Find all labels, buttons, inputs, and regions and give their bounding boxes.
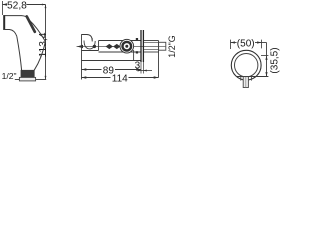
centerline: [77, 46, 160, 48]
arrow 113,4 bottom: [45, 76, 47, 80]
bottom chord / extension (35,5) bottom: [236, 76, 268, 78]
dimension line (35,5): [266, 43, 268, 77]
arrow 89 right: [136, 68, 141, 70]
pipe end / extension 114: [158, 41, 160, 78]
hook inner vertical: [91, 38, 93, 42]
svg-text:(50): (50): [237, 38, 255, 49]
flange dot top: [136, 38, 138, 40]
extension line (50) right: [261, 40, 263, 49]
extension line bottom of 113,4: [36, 79, 47, 81]
arrow 114 right: [154, 76, 159, 78]
hook stem inner line: [245, 77, 247, 87]
dimension line 113,4: [45, 5, 47, 80]
arrow 3 right: [143, 70, 146, 72]
hook top edge: [82, 35, 93, 41]
arrow 3 left: [138, 70, 141, 72]
arrow (50) right: [257, 41, 261, 43]
body bottom edge: [99, 51, 141, 53]
extension line (35,5) top: [261, 55, 268, 57]
flange dot bottom: [136, 51, 138, 53]
svg-text:1/2"G: 1/2"G: [167, 35, 177, 57]
wall plate back line: [142, 30, 144, 62]
dimension line 89: [82, 69, 102, 71]
hook collar left: [240, 77, 242, 81]
diamond marker 1: [106, 44, 113, 49]
spray head top edge: [4, 16, 29, 20]
arrow 89 left: [82, 68, 87, 70]
nipple centerline: [159, 46, 165, 48]
inner circle: [235, 53, 258, 76]
pipe thread top: [144, 42, 159, 44]
valve cap outer circle: [120, 39, 134, 53]
svg-text:52,8: 52,8: [7, 1, 27, 12]
leader line 1/2": [15, 79, 20, 81]
arrow 113,4 top: [45, 5, 47, 9]
hook cup: [84, 41, 95, 49]
svg-text:3: 3: [135, 61, 141, 72]
hook collar right: [250, 77, 252, 81]
arrow (35,5) top: [265, 56, 267, 60]
arrow (50) left: [231, 41, 235, 43]
dimension line 114: [82, 77, 111, 79]
outer circle: [231, 50, 261, 80]
arrow 114 left: [82, 76, 87, 78]
svg-text:113,4: 113,4: [38, 32, 49, 57]
head bottom edge: [4, 30, 17, 37]
pipe bottom: [144, 51, 159, 53]
centerline left arrow: [77, 45, 83, 48]
collar edge under cap: [133, 50, 135, 61]
arrow (35,5) bottom: [265, 72, 267, 76]
connector nut: [19, 77, 35, 81]
arrow 52,8 left: [2, 3, 7, 5]
hose connector dark band: [21, 70, 35, 77]
hook right edge: [98, 41, 100, 51]
head right slant to handle knee: [28, 19, 45, 41]
svg-text:(35,5): (35,5): [270, 47, 281, 73]
spray head face (thick): [3, 15, 5, 30]
svg-text:114: 114: [112, 74, 128, 85]
dimension line 52,8: [3, 4, 7, 6]
hook cup pin: [93, 45, 96, 48]
trigger lever: [27, 16, 35, 31]
extension line (50) left: [230, 40, 232, 49]
wall plate front line: [140, 30, 142, 62]
extension lines 3: [140, 62, 142, 74]
valve cap ring: [123, 42, 132, 51]
valve cap center dot: [125, 45, 128, 48]
pipe thread bottom: [144, 49, 159, 51]
dimension line (50): [231, 42, 237, 44]
hook left face / extension: [81, 34, 83, 79]
arrow 52,8 right: [42, 4, 46, 6]
hook stem: [243, 77, 248, 88]
handle left edge: [17, 36, 22, 70]
handle right edge: [34, 42, 45, 71]
pipe top: [144, 40, 159, 42]
hook bottom edge: [82, 50, 99, 52]
extension line left of 52,8: [2, 1, 4, 15]
nipple: [159, 42, 166, 50]
dimension line 3: [138, 70, 153, 72]
svg-text:1/2": 1/2": [2, 71, 17, 81]
lower plate edge: [82, 60, 141, 62]
body top edge: [99, 40, 141, 42]
diamond marker 2: [113, 44, 120, 49]
